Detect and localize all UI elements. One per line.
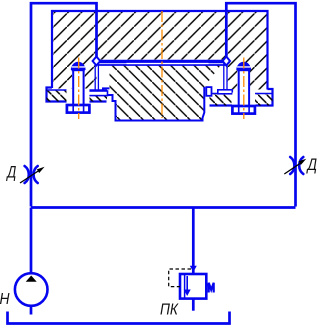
pipe: pump suction/delivery <box>30 208 33 315</box>
pipe: top right run <box>226 3 295 206</box>
centerline middle <box>161 11 163 118</box>
svg-text:Д: Д <box>306 156 317 174</box>
pipe: relief valve branch <box>192 208 195 275</box>
workpiece top edge line <box>98 64 227 66</box>
pump N circle <box>15 273 48 306</box>
valve pilot dashed line <box>169 269 191 287</box>
svg-text:Д: Д <box>6 164 17 182</box>
workpiece (hatched) <box>103 66 221 121</box>
right base flange (hatched) <box>210 94 273 106</box>
valve outlet stub <box>192 299 195 311</box>
clamp plate (thick blue bar) <box>94 60 230 63</box>
fixture body outline <box>47 11 273 106</box>
throttle D1 arrow <box>20 170 41 184</box>
left push rod <box>86 63 108 96</box>
centerline left bolt <box>78 58 80 120</box>
clamp recess gap <box>127 63 209 65</box>
centerline right bolt <box>243 58 245 120</box>
throttle D1 (left) arcs <box>20 166 45 183</box>
bolt B2 (right plunger) <box>232 62 255 114</box>
relief valve PK box <box>180 274 206 299</box>
inlet arrow into valve <box>190 266 197 272</box>
svg-text:Н: Н <box>0 291 10 308</box>
locating post nub <box>206 87 211 96</box>
tank line <box>8 312 230 324</box>
right flange top line <box>210 93 272 95</box>
throttle D2 (right) arcs <box>284 157 306 174</box>
bolt B1 (left plunger) <box>67 62 90 113</box>
left flange top line <box>47 89 107 91</box>
pipe: bottom manifold <box>31 206 296 209</box>
svg-text:ПК: ПК <box>160 301 179 318</box>
pump flow triangle <box>26 276 37 282</box>
fixture body block (hatched) <box>52 11 268 90</box>
valve spring <box>206 284 208 287</box>
right push rod <box>218 63 233 94</box>
pipe connector right <box>223 57 230 66</box>
throttle D2 arrow <box>284 162 302 174</box>
pipe: top left run <box>31 3 97 206</box>
left base flange (hatched) <box>47 90 108 102</box>
pipe connector left (diamond) <box>93 57 101 66</box>
valve internal arrow <box>186 276 188 291</box>
